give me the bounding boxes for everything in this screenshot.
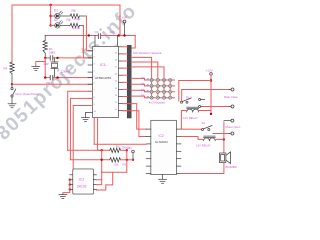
- wire R4 bottom lead: [11, 74, 13, 85]
- svg-text:Motor Open: Motor Open: [226, 125, 241, 129]
- resistor R5: [70, 14, 80, 18]
- node junction top: [49, 4, 51, 6]
- svg-text:R3: R3: [123, 162, 127, 166]
- svg-text:150E: 150E: [74, 17, 81, 21]
- svg-text:150E: 150E: [73, 26, 80, 30]
- wire IC1 P3.4 down: [68, 91, 93, 150]
- svg-text:R2: R2: [116, 145, 120, 149]
- terminal main1: [231, 88, 234, 91]
- wire main terminal1: [182, 89, 229, 91]
- wire eeprom stair: [96, 172, 112, 190]
- svg-text:R4: R4: [4, 67, 8, 71]
- wire door to IC1: [12, 83, 93, 85]
- node IC3 a0: [69, 179, 71, 181]
- node 12v-b: [210, 113, 212, 115]
- node IC3 a2: [69, 188, 71, 190]
- node rail-left: [88, 34, 90, 36]
- node xtal2-right: [56, 76, 58, 78]
- LED D1: [55, 11, 63, 19]
- node LED1: [49, 15, 51, 17]
- relay RL1 coil: [187, 107, 199, 112]
- ground IC3: [59, 194, 67, 198]
- IC1 pin numbers: [94, 45, 118, 113]
- wire IC1 to ULN in1: [123, 104, 146, 130]
- svg-text:D2: D2: [54, 18, 58, 22]
- wire R1 bottom lead: [44, 53, 46, 58]
- node xtal1-left: [44, 57, 46, 59]
- svg-text:R5: R5: [72, 9, 76, 13]
- svg-text:12V RELAY: 12V RELAY: [196, 144, 211, 148]
- wire ground tap: [36, 62, 45, 67]
- svg-text:BUZZER: BUZZER: [226, 165, 237, 169]
- node 12v-a: [210, 79, 212, 81]
- node coil2: [223, 138, 225, 140]
- IC2 right pins: [177, 129, 182, 173]
- buzzer BU1: [219, 152, 230, 164]
- svg-text:R6: R6: [67, 18, 71, 22]
- wire coil2 left: [181, 137, 204, 140]
- wire LED1 to R5: [60, 15, 70, 17]
- IC3 right pins: [93, 175, 96, 190]
- wire term stub: [132, 153, 134, 160]
- ground door: [8, 104, 16, 108]
- wire XTAL1 rail: [45, 57, 50, 59]
- wire relay1 common feed: [179, 81, 211, 102]
- wire keypad row2 feed: [131, 84, 146, 86]
- node sda-r3: [101, 159, 103, 161]
- IC1 left pin stubs: [88, 51, 93, 113]
- wire IC3 wp loop: [96, 180, 101, 185]
- terminal main2 row: [199, 106, 201, 108]
- ground xtal: [32, 66, 40, 70]
- capacitor C3: [98, 34, 100, 39]
- wire keypad col1 feed: [131, 57, 151, 97]
- svg-text:ULN2003: ULN2003: [155, 140, 168, 144]
- node IC3 a1: [69, 183, 71, 185]
- wire motor terminal2: [213, 133, 229, 135]
- node term: [123, 34, 125, 36]
- svg-text:Main Close: Main Close: [224, 95, 238, 99]
- keypad 4x3: [141, 77, 175, 105]
- svg-text:IC2: IC2: [159, 134, 164, 138]
- node R2 left: [101, 149, 103, 151]
- svg-text:12MHz: 12MHz: [61, 70, 71, 74]
- relay RL1 contact: [181, 98, 192, 103]
- wire keypad rows: [146, 80, 174, 98]
- keypad buttons: [150, 78, 172, 99]
- wire R3 line: [70, 159, 109, 161]
- wire R5 to IC1 pin1: [86, 16, 92, 51]
- resistor R2: [110, 148, 121, 152]
- wire buzzer top feed: [223, 122, 225, 139]
- wire rail to RN: [120, 35, 135, 37]
- node R2 right: [126, 149, 128, 151]
- wire IC1 P3.7 down: [73, 106, 92, 175]
- relay RL1 throw circle: [199, 99, 201, 101]
- wire IC1 to ULN in2: [123, 111, 146, 137]
- svg-text:IC3: IC3: [79, 178, 84, 182]
- relay RL2 coil: [204, 136, 216, 141]
- node term5v: [132, 159, 134, 161]
- wire LED2 to R6: [60, 24, 70, 26]
- capacitor C2: [50, 75, 53, 80]
- svg-text:IC1: IC1: [100, 63, 106, 67]
- IC1 right pin stubs: [119, 47, 124, 111]
- wire IC1 pins to RN: [123, 47, 127, 111]
- ground IC2: [159, 175, 167, 184]
- wire +5V cross line: [102, 171, 127, 173]
- terminal +5V near ULN: [132, 150, 135, 153]
- wire IC1 bottom pin A down: [93, 118, 95, 145]
- svg-text:+5V: +5V: [122, 16, 127, 20]
- IC1 AT89C2051: [93, 47, 119, 118]
- node LED2: [49, 24, 51, 26]
- wire top-left frame: [12, 5, 120, 62]
- svg-text:Door Open/Close: Door Open/Close: [16, 92, 40, 96]
- wire terminal stub: [124, 23, 126, 36]
- wire coil2 right to buzzer: [215, 139, 224, 152]
- resistor R4: [10, 62, 14, 74]
- svg-text:104: 104: [110, 30, 115, 34]
- terminal motor2: [231, 132, 234, 135]
- svg-text:AT89C2051: AT89C2051: [95, 76, 112, 80]
- wire R6 right lead: [80, 24, 84, 26]
- wire keypad col3 feed: [131, 67, 164, 98]
- resistor network RN1: [127, 45, 131, 118]
- wire SDA vertical: [101, 150, 103, 179]
- svg-text:C3: C3: [95, 30, 99, 34]
- wire R1 top lead: [44, 36, 46, 41]
- LED D2: [55, 21, 63, 28]
- terminal main2: [231, 105, 234, 108]
- wire keypad col4: [169, 80, 171, 98]
- node xtal1-right: [56, 57, 58, 59]
- wire IC1 bottom pin B down: [98, 118, 103, 151]
- resistor R6: [70, 23, 80, 27]
- wire VCC rail with C3: [45, 35, 97, 37]
- terminal +12V: [210, 73, 213, 76]
- svg-text:D1: D1: [54, 9, 58, 13]
- svg-text:10k Resistor Network: 10k Resistor Network: [133, 51, 162, 55]
- wire coil1 left: [181, 111, 186, 130]
- wire LED branch vertical: [50, 5, 52, 25]
- wire IC3 addr tie: [63, 180, 70, 195]
- wire keypad row1 feed: [131, 78, 146, 80]
- wire motor terminal1: [224, 120, 231, 122]
- wire keypad row3 feed: [131, 90, 146, 92]
- svg-text:10K: 10K: [114, 162, 119, 166]
- wire caps common vertical: [44, 58, 46, 78]
- keypad row nubs: [147, 78, 149, 98]
- node xtal2-left: [44, 76, 46, 78]
- svg-text:C1: C1: [52, 51, 56, 55]
- IC2 left pins: [146, 129, 151, 173]
- wire keypad row4 feed: [131, 96, 146, 98]
- wire R6 to IC1 pin2: [83, 25, 92, 58]
- svg-text:4x3 Keypad: 4x3 Keypad: [149, 101, 165, 105]
- node R3 right: [126, 159, 128, 161]
- wire keypad col2 feed: [131, 62, 158, 98]
- crystal X1: [51, 58, 58, 78]
- wire R5 right lead: [80, 15, 87, 17]
- wire coil1 right: [199, 110, 211, 112]
- wire uln out1 to relay2 contact: [181, 128, 202, 130]
- terminal top-right: [123, 20, 126, 23]
- terminal motor1: [231, 119, 234, 122]
- resistor R3: [110, 158, 121, 162]
- wire IC1 P3.5 down: [70, 98, 92, 159]
- svg-text:24C02: 24C02: [77, 185, 87, 189]
- wire R2 line: [68, 149, 110, 151]
- svg-text:S2: S2: [202, 121, 206, 125]
- wire to LED D2: [51, 24, 55, 26]
- node rail-right: [118, 34, 120, 36]
- svg-text:10kx2: 10kx2: [122, 146, 130, 150]
- svg-text:+12V: +12V: [206, 69, 213, 73]
- relay RL2 contact: [202, 126, 213, 131]
- wire long to ULN pin3: [94, 143, 146, 145]
- node door: [11, 83, 13, 85]
- capacitor C1: [50, 56, 53, 61]
- IC3 left pins: [70, 175, 73, 190]
- wire IC1 top pin stubs: [94, 36, 96, 47]
- wire R2R3 right vertical: [126, 150, 128, 172]
- wire relay1 NO feed: [181, 90, 183, 102]
- svg-text:RL/1: RL/1: [186, 95, 192, 99]
- wire buzzer bottom: [181, 163, 224, 174]
- switch door open/close: [11, 85, 16, 103]
- IC2 ULN2003: [151, 120, 177, 174]
- svg-text:33P: 33P: [44, 62, 49, 66]
- wire XTAL2 rail: [45, 77, 50, 79]
- resistor R1: [43, 41, 47, 54]
- IC3 24C02: [73, 169, 94, 194]
- wire +12V vertical: [210, 75, 212, 114]
- wire to LED D1: [51, 15, 55, 17]
- wire RN top feed: [131, 36, 135, 49]
- ground IC1: [82, 113, 90, 122]
- svg-text:12V RELAY: 12V RELAY: [183, 116, 198, 120]
